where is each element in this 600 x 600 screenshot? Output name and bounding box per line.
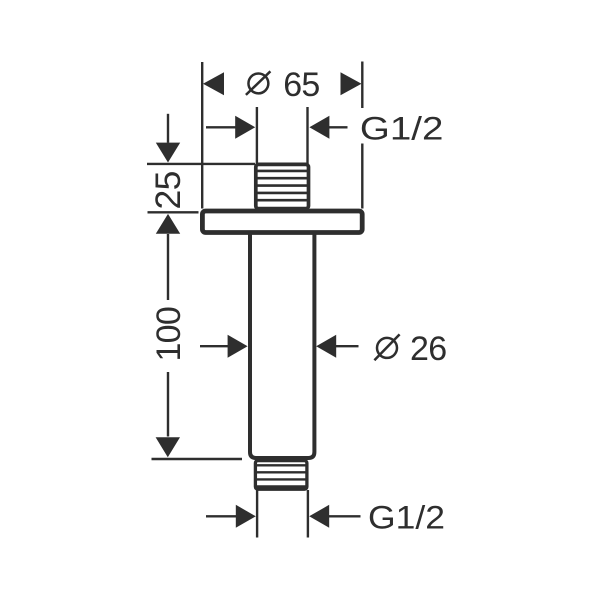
dim 25 upper tail [167, 114, 169, 143]
top G1/2 arrow left [235, 116, 255, 139]
top threaded connector body [256, 164, 309, 208]
dim 25 / 100 shared reference line [148, 211, 199, 213]
bottom thread extension line left [256, 490, 258, 538]
bottom G1/2 arrow left [236, 505, 256, 528]
dim 100 arrow down [156, 437, 180, 457]
extension line Ø65 right (broken around G1/2 text) [361, 62, 363, 109]
svg-text:65: 65 [283, 66, 319, 104]
dim 25 arrow up (top of 100 dim) [156, 214, 180, 234]
dim 100 line lower segment [167, 372, 169, 437]
top G1/2 arrow right [309, 116, 329, 139]
Ø symbol of Ø26 [377, 338, 397, 358]
bottom thread hatch lines [257, 464, 306, 466]
svg-text:100: 100 [150, 307, 188, 362]
top thread hatch lines [258, 170, 308, 173]
svg-text:25: 25 [148, 171, 188, 209]
dim 100 line upper segment [167, 234, 169, 300]
bottom G1/2 dim tail left [206, 515, 236, 517]
dim Ø65 arrow right [341, 72, 362, 95]
dim Ø26 tail right [336, 345, 359, 347]
dim 25 top reference line [147, 163, 255, 165]
bottom G1/2 dim tail right [329, 515, 361, 517]
Ø symbol of Ø65 [248, 73, 268, 93]
dim Ø65 arrow left [203, 72, 224, 95]
svg-text:G1/2: G1/2 [368, 499, 445, 535]
dim 100 bottom reference line [152, 458, 243, 460]
dim Ø26 arrow left [228, 335, 248, 358]
thread top extension line left [256, 107, 258, 164]
thread top extension line right [306, 107, 308, 164]
dim Ø26 arrow right [316, 335, 336, 358]
dim Ø26 tail left [200, 345, 229, 347]
svg-text:26: 26 [410, 330, 446, 368]
bottom G1/2 arrow right [309, 505, 329, 528]
bottom thread extension line right [307, 490, 309, 538]
extension line Ø65 left [201, 62, 203, 209]
pipe body [250, 233, 314, 458]
bottom threaded connector body [255, 461, 307, 490]
ceiling flange plate [202, 211, 362, 233]
svg-text:G1/2: G1/2 [360, 110, 444, 146]
top G1/2 dim tail left [206, 126, 236, 128]
dim 25 arrow down [156, 143, 180, 163]
top G1/2 dim tail right [329, 126, 348, 128]
